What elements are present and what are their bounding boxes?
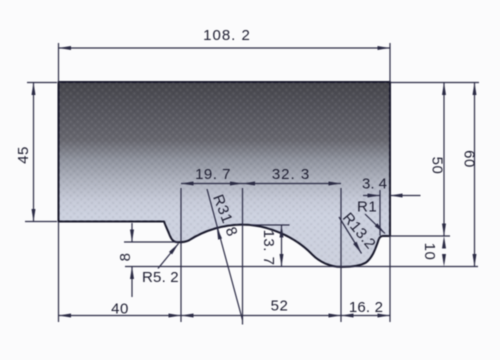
dimension 50 (right) (443, 83, 445, 237)
svg-text:8: 8 (117, 253, 134, 262)
profile outline of moulding cross-section (gradient fill) (59, 82, 391, 267)
dimension 10 (right) (442, 236, 446, 249)
svg-text:19. 7: 19. 7 (195, 166, 231, 183)
svg-text:50: 50 (429, 157, 446, 175)
svg-text:108. 2: 108. 2 (203, 27, 251, 44)
svg-text:52: 52 (271, 298, 289, 315)
svg-text:60: 60 (461, 150, 478, 168)
dimension 45 (left height) (25, 83, 57, 222)
dimension 3.4 (upper right) (363, 190, 421, 236)
svg-text:40: 40 (111, 301, 129, 318)
dimension chain 40 / 52 / 16.2 (bottom) with extension lines (59, 188, 391, 325)
dimension 60 (overall height, right) (474, 83, 476, 267)
svg-text:45: 45 (15, 146, 32, 164)
svg-text:R1: R1 (357, 199, 377, 216)
radius leader R13.2 (339, 217, 362, 254)
svg-text:3. 4: 3. 4 (362, 176, 387, 193)
halftone texture overlay on profile fill (59, 82, 391, 267)
svg-text:10: 10 (421, 243, 438, 261)
dimensions 19.7 / 32.3 (middle) (181, 183, 341, 185)
dimension 8 (cove depth) (124, 223, 178, 297)
svg-text:13. 7: 13. 7 (260, 230, 277, 266)
radius leader R31.8 (207, 189, 243, 320)
svg-text:R5. 2: R5. 2 (142, 269, 179, 286)
dimension 13.7 (crest height) (252, 225, 290, 267)
svg-text:32. 3: 32. 3 (272, 166, 310, 183)
dimension 108.2 (overall width, top) (59, 43, 391, 82)
svg-text:16. 2: 16. 2 (349, 299, 383, 316)
extension lines right side and bottom reference line (125, 83, 479, 267)
radius leader R5.2 (158, 244, 179, 269)
